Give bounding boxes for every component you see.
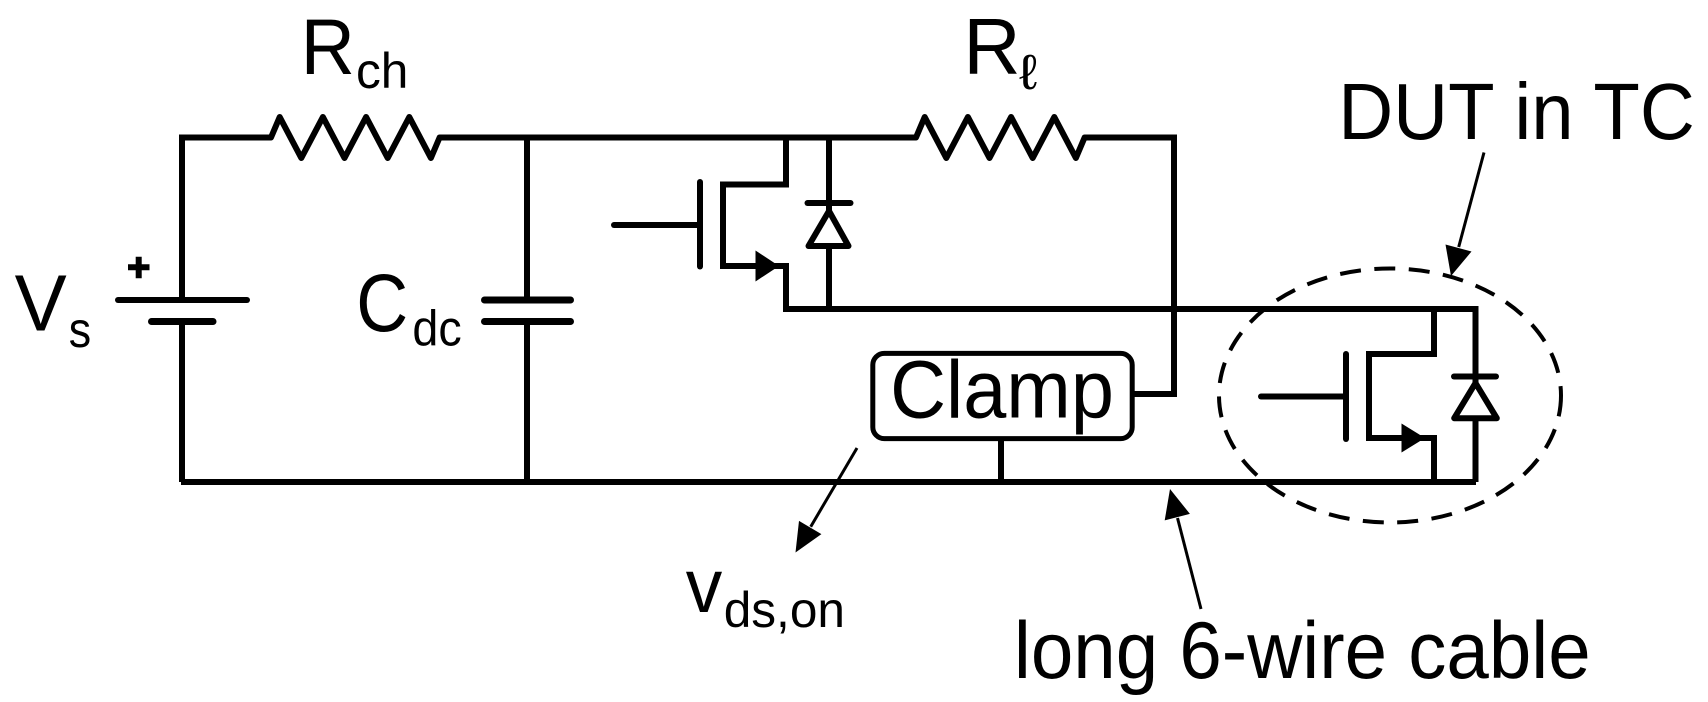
transistor Q1 source arrow (756, 251, 780, 282)
capacitor Cdc top lead (524, 138, 530, 301)
diode D1 cathode bar (808, 200, 851, 206)
plus sign (128, 257, 150, 279)
svg-text:v: v (686, 544, 723, 629)
svg-text:s: s (69, 302, 91, 358)
diode D2 triangle (1454, 383, 1497, 418)
resistor Rch (263, 117, 448, 158)
capacitor Cdc plates (485, 297, 571, 304)
svg-text:C: C (356, 258, 408, 349)
middle rail (Q1 source / DUT drain) (786, 309, 1476, 482)
transistor Q1 gate bar (697, 182, 703, 267)
wire from Rl right, down, to Clamp right stub (1085, 138, 1174, 395)
svg-text:V: V (15, 259, 68, 348)
svg-text:dc: dc (412, 300, 461, 356)
resistor Rl (908, 117, 1093, 158)
transistor Q1 gate lead (614, 222, 700, 228)
capacitor Cdc bottom lead (524, 322, 530, 483)
battery Vs (118, 297, 247, 303)
svg-text:R: R (963, 2, 1020, 91)
arrow vds,on (811, 448, 857, 527)
wire battery bottom lead (179, 322, 185, 483)
svg-text:long 6-wire cable: long 6-wire cable (1014, 606, 1591, 696)
wire top rail between Rch and Rl (440, 135, 916, 141)
arrow long 6-wire cable (1178, 518, 1202, 609)
svg-text:ch: ch (356, 43, 408, 99)
svg-text:Clamp: Clamp (890, 345, 1114, 436)
transistor Q1 body (drain-channel-source) (723, 135, 786, 313)
diode D1 vertical (826, 135, 832, 310)
transistor DUT body (1369, 309, 1434, 482)
transistor DUT gate bar (1343, 354, 1349, 439)
diode D2 cathode bar (1454, 374, 1496, 380)
svg-text:R: R (301, 2, 355, 91)
dashed ellipse DUT in TC (1219, 269, 1561, 523)
arrow DUT in TC (1459, 153, 1484, 248)
Clamp box (873, 353, 1132, 438)
diode D1 triangle (809, 211, 849, 246)
Clamp bottom stub (998, 441, 1004, 482)
svg-text:ℓ: ℓ (1019, 45, 1037, 100)
transistor DUT gate lead (1261, 394, 1346, 400)
transistor DUT source arrow (1402, 424, 1426, 453)
svg-text:ds,on: ds,on (724, 582, 845, 638)
wire from battery + up to top rail and to R_ch (182, 138, 271, 301)
ground rail (bottom wire) (181, 479, 1476, 485)
svg-text:DUT in TC: DUT in TC (1338, 67, 1695, 156)
